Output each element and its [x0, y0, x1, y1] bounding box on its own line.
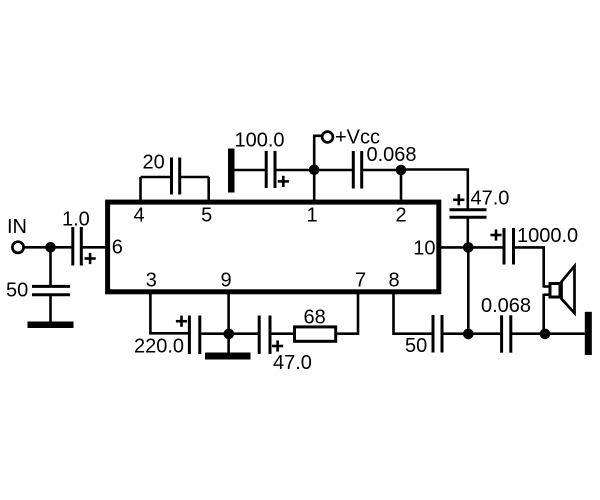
wire pin 2 stub — [400, 170, 403, 200]
capacitor 20 plates — [170, 158, 173, 195]
wire pin 3 stub — [150, 294, 189, 333]
speaker LS1 horn — [562, 266, 575, 313]
svg-text:3: 3 — [146, 270, 157, 292]
ground left — [28, 322, 74, 329]
wire pin 8 stub — [394, 294, 434, 334]
wire speaker stub top — [544, 285, 549, 288]
plus of C 47.0 right — [453, 199, 464, 202]
wire node 9 to C 47.0 bottom — [229, 332, 259, 335]
wire C 0.068 to node B — [511, 332, 545, 335]
wire Vcc riser — [314, 136, 322, 170]
wire speaker stub bottom — [544, 293, 549, 296]
svg-text:47.0: 47.0 — [471, 188, 510, 210]
wire bracket left of C 20 — [141, 176, 172, 179]
svg-text:4: 4 — [133, 205, 144, 227]
ground middle — [205, 353, 251, 360]
svg-text:50: 50 — [405, 335, 427, 357]
svg-text:47.0: 47.0 — [273, 352, 312, 374]
capacitor 0.068 top plates — [352, 151, 355, 189]
wire input to junction — [24, 246, 51, 249]
capacitor 50 plates (left) — [32, 285, 70, 288]
plus of C 100.0 — [278, 180, 289, 183]
svg-text:1: 1 — [306, 205, 317, 227]
svg-text:0.068: 0.068 — [367, 144, 417, 166]
svg-text:9: 9 — [220, 270, 231, 292]
svg-text:50: 50 — [6, 280, 28, 302]
wire pin 1 stub — [313, 170, 316, 200]
plus of C 47.0 bottom — [272, 345, 283, 348]
wire speaker down to node — [542, 294, 545, 334]
svg-text:8: 8 — [388, 270, 399, 292]
capacitor 1.0 plates — [71, 227, 74, 266]
svg-text:IN: IN — [7, 216, 27, 238]
plus of C 220.0 — [176, 320, 187, 323]
node pin2 junction — [396, 165, 407, 176]
wire C 220.0 to node 9 — [200, 332, 229, 335]
speaker LS1 driver — [550, 284, 560, 298]
svg-text:7: 7 — [355, 270, 366, 292]
svg-text:5: 5 — [201, 205, 212, 227]
capacitor 0.068 bottom plates — [500, 315, 503, 352]
svg-text:0.068: 0.068 — [481, 295, 531, 317]
svg-text:68: 68 — [304, 307, 326, 329]
wire C 50 to ground — [49, 295, 52, 322]
wire junction down to C 50 — [49, 247, 52, 286]
Vcc terminal circle — [322, 132, 333, 143]
wire C 100.0 to node Vcc — [275, 169, 314, 172]
plus of C 1.0 — [85, 257, 96, 260]
svg-text:1000.0: 1000.0 — [517, 225, 578, 247]
capacitor 47.0 bottom plates — [258, 316, 261, 355]
node input junction — [45, 242, 56, 253]
svg-text:100.0: 100.0 — [235, 130, 285, 152]
svg-text:2: 2 — [395, 205, 406, 227]
wire pin2 node to C 47.0 right — [401, 170, 468, 210]
op-amp IC U1 body — [108, 202, 439, 292]
wire node A to C 0.068 bottom — [468, 332, 501, 335]
resistor 68 body — [295, 327, 336, 341]
node Vcc junction — [309, 165, 320, 176]
plus of C 1000.0 — [490, 234, 501, 237]
node A junction — [463, 329, 474, 340]
wire node to C 1000.0 — [468, 246, 504, 249]
capacitor 1000.0 plates — [503, 228, 506, 265]
capacitor 50 bottom plates — [432, 315, 435, 353]
wire to C 100.0 plates — [235, 169, 267, 172]
wire pin 5 stub up — [207, 177, 210, 200]
capacitor 100.0 thick ground plate — [228, 149, 235, 193]
wire pin 9 stub — [227, 294, 230, 353]
wire C 1000.0 to speaker — [514, 247, 544, 287]
wire pin 4 stub up — [139, 177, 142, 200]
capacitor 47.0 right plates — [450, 208, 487, 211]
input terminal circle — [12, 242, 23, 253]
svg-text:10: 10 — [413, 238, 435, 260]
wire C 50 to node A — [442, 332, 468, 335]
wire node B to ground right — [545, 332, 585, 335]
wire C 0.068 to node pin2 — [362, 169, 401, 172]
capacitor 100.0 plates — [265, 151, 268, 188]
ground right — [585, 312, 592, 355]
node B junction — [540, 329, 551, 340]
node pin 9 junction — [224, 329, 235, 340]
wire C 47.0 down to node 10 — [466, 217, 469, 247]
svg-text:20: 20 — [143, 152, 165, 174]
node pin 10 junction — [463, 242, 474, 253]
capacitor 220.0 plates — [188, 316, 191, 355]
wire resistor to pin 7 — [336, 294, 358, 334]
svg-text:220.0: 220.0 — [134, 336, 184, 358]
svg-text:1.0: 1.0 — [62, 209, 90, 231]
wire pin 10 stub — [441, 246, 468, 249]
wire bracket right of C 20 — [180, 176, 209, 179]
wire C 47.0 to resistor 68 — [270, 332, 295, 335]
svg-text:6: 6 — [112, 237, 123, 259]
wire C 1.0 to pin 6 — [81, 246, 106, 249]
wire node to C 0.068 top — [314, 169, 353, 172]
wire junction to C 1.0 — [51, 246, 73, 249]
wire node10 down to bottom row — [467, 247, 470, 333]
